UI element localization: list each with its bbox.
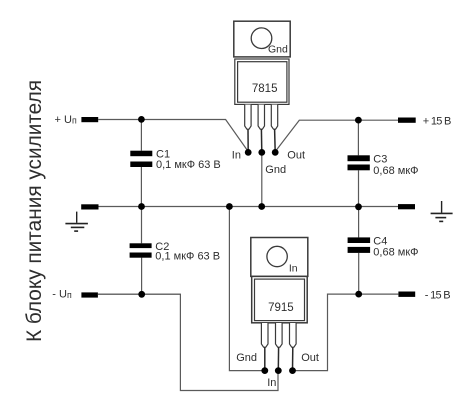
terminal +15V label [423, 115, 452, 127]
capacitor C2 [130, 241, 220, 263]
node middle C3/C4 junction [355, 203, 362, 210]
U1 pin label In [232, 149, 241, 161]
terminal -15V bar [398, 292, 415, 297]
U1 pin Out [271, 105, 277, 153]
note text: К блоку питания усилителя [22, 80, 46, 342]
U1 pin label Out [287, 149, 305, 161]
wire bottom-left rail (-Un) [98, 293, 180, 295]
terminal middle-left bar [81, 204, 98, 209]
svg-text:Gnd: Gnd [236, 352, 257, 364]
terminal +Un label [55, 114, 77, 126]
wire 7815 Gnd to middle [261, 152, 263, 206]
wire C1 top [140, 120, 142, 151]
terminal -Un label [52, 289, 72, 301]
capacitor C3 [348, 154, 419, 178]
svg-text:In: In [267, 377, 276, 389]
terminal -Un bar [81, 292, 98, 297]
svg-text:Gnd: Gnd [265, 164, 286, 176]
terminal middle-right bar [398, 204, 415, 209]
regulator U2 7915 package [251, 238, 308, 323]
svg-text:0,1 мкФ 63 В: 0,1 мкФ 63 В [156, 159, 221, 171]
svg-text:C3: C3 [373, 154, 387, 166]
ground left [65, 212, 88, 232]
svg-text:7915: 7915 [268, 302, 294, 314]
node middle C1/C2 junction [138, 203, 145, 210]
svg-text:0,68 мкФ: 0,68 мкФ [373, 246, 418, 258]
node middle 7915-gnd junction [226, 203, 233, 210]
node U2 Out pin [289, 367, 296, 374]
svg-text:Out: Out [301, 352, 319, 364]
wire 7915 Gnd to middle rail [229, 207, 264, 371]
svg-text:Out: Out [287, 149, 305, 161]
node bottom C4 junction [355, 291, 362, 298]
wire C3 bottom [358, 170, 360, 207]
node U2 In pin [275, 367, 282, 374]
svg-text:- 15 В: - 15 В [425, 289, 451, 301]
U2 pin Gnd [261, 323, 268, 371]
node U2 Gnd pin [261, 367, 268, 374]
U1 pin label Gnd [265, 164, 286, 176]
U2 pin label Gnd [236, 352, 257, 364]
regulator U1 7815 package [234, 21, 290, 104]
node bottom C2 junction [138, 291, 145, 298]
U2 pin label Out [301, 352, 319, 364]
svg-text:7815: 7815 [252, 83, 278, 95]
wire C4 top [358, 207, 360, 238]
svg-text:Gnd: Gnd [268, 44, 288, 56]
svg-text:+ 15 В: + 15 В [423, 115, 452, 127]
terminal +15V bar [398, 118, 416, 123]
U1 pin In [245, 105, 251, 153]
svg-text:К блоку питания усилителя: К блоку питания усилителя [22, 80, 46, 342]
node U1 In pin [245, 149, 252, 156]
wire top-left (+Un to diagonal) [98, 120, 248, 152]
node U1 Out pin [272, 149, 279, 156]
wire 7915 Out to -15V junction [293, 294, 359, 371]
ground right [431, 201, 453, 221]
capacitor C1 [130, 148, 220, 171]
U2 pin label In [267, 377, 276, 389]
U2 pin In [276, 323, 283, 371]
wire bottom-left (-Un to 7915 In) [98, 294, 278, 390]
wire C3 top [357, 120, 359, 155]
U2 pin Out [290, 323, 297, 371]
node top C3 junction [355, 117, 362, 124]
node top C1 junction [138, 116, 145, 123]
node middle 7815-gnd junction [258, 203, 265, 210]
U1 pin Gnd [258, 105, 264, 153]
node U1 Gnd pin [258, 149, 265, 156]
terminal -15V label [425, 289, 451, 301]
svg-text:+ Uп: + Uп [55, 114, 77, 126]
wire middle rail [99, 206, 399, 208]
svg-text:0,68 мкФ: 0,68 мкФ [373, 165, 418, 177]
wire C4 bottom [358, 253, 360, 294]
terminal +Un bar [81, 117, 98, 122]
wire bottom-right (junction to -15V bar) [359, 293, 399, 295]
svg-text:In: In [289, 263, 298, 275]
svg-text:- Uп: - Uп [52, 289, 72, 301]
svg-text:In: In [232, 149, 241, 161]
wire C2 top [141, 207, 143, 244]
svg-text:0,1 мкФ 63 В: 0,1 мкФ 63 В [155, 251, 220, 263]
capacitor C4 [348, 236, 419, 259]
wire C2 bottom [141, 258, 143, 295]
wire C1 bottom [140, 167, 142, 207]
wire top-right (Out diagonal to +15V) [275, 120, 398, 151]
